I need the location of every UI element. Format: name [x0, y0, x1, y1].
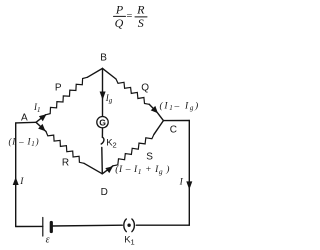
resistor S (arm D-C): [102, 166, 113, 174]
fraction bar P/Q: [114, 15, 126, 17]
svg-text:=: =: [126, 11, 133, 22]
key K1 left arc: [124, 219, 126, 232]
battery long plate: [42, 218, 44, 237]
wire G to key K2: [101, 128, 103, 137]
wire K1 to right corner: [136, 224, 189, 226]
svg-text:Q: Q: [115, 16, 124, 30]
svg-text:C: C: [170, 125, 177, 136]
svg-text:G: G: [99, 117, 106, 127]
key K1 dot: [127, 224, 130, 227]
arrow (I1-Ig) on Q near C: [151, 106, 158, 113]
svg-text:B: B: [100, 53, 107, 64]
resistor Q (arm B-C): [103, 68, 117, 79]
arrow Ig on galvanometer branch: [100, 92, 106, 101]
fraction bar R/S: [135, 16, 147, 18]
svg-text:Q: Q: [141, 83, 149, 94]
resistor P (arm A-B): [36, 115, 46, 123]
resistor R (arm A-D): [36, 122, 46, 131]
svg-text:A: A: [21, 112, 28, 123]
svg-text:D: D: [101, 187, 108, 198]
svg-text:P: P: [115, 3, 124, 17]
svg-text:R: R: [62, 158, 69, 169]
svg-text:S: S: [138, 16, 144, 30]
svg-text:P: P: [55, 83, 62, 94]
svg-text:ε: ε: [46, 234, 50, 245]
wire K2 to D: [101, 147, 104, 173]
wire right vertical: [188, 121, 190, 226]
wire battery to key K1: [51, 224, 122, 227]
wire bottom left to battery: [16, 225, 43, 227]
svg-text:R: R: [136, 3, 145, 17]
galvanometer G: [97, 117, 108, 128]
wire A to left corner: [16, 121, 36, 124]
arrow (I-I1+Ig) on S near D: [105, 166, 113, 173]
svg-text:S: S: [146, 151, 153, 162]
arrow I on left wire (up): [13, 177, 19, 185]
key K1 right arc: [132, 219, 134, 232]
arrow (I-I1) on R near A: [38, 124, 45, 131]
equation P/Q = R/S: [115, 3, 145, 31]
battery short plate: [50, 223, 53, 232]
key K2 blade: [101, 137, 104, 144]
wire left vertical: [15, 123, 17, 227]
wire right top to C: [163, 120, 189, 122]
arrow I1 on P near A: [39, 114, 47, 121]
wire galvanometer branch upper (B to G): [102, 68, 104, 116]
arrow I on right wire (down): [186, 181, 192, 189]
